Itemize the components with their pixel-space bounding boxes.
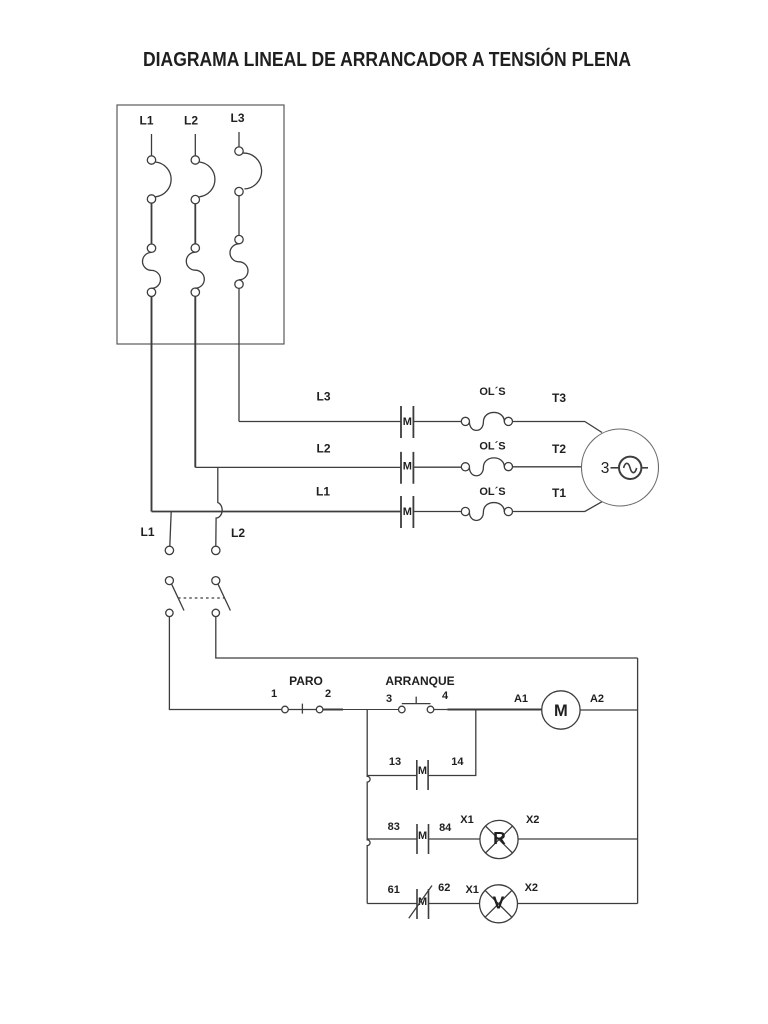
wire rung3 left: [367, 903, 417, 905]
svg-text:84: 84: [439, 822, 452, 834]
svg-text:X2: X2: [526, 814, 539, 826]
wire lamp R to right rail: [518, 838, 638, 840]
wire rung2 to lamp R: [429, 838, 480, 840]
svg-text:83: 83: [388, 821, 400, 833]
svg-text:OL´S: OL´S: [479, 486, 505, 498]
pushbutton ARRANQUE (NO): bridge and plunger: [402, 697, 431, 704]
svg-text:ARRANQUE: ARRANQUE: [385, 674, 454, 688]
fuse F2 (S-curve): [186, 252, 204, 288]
wire L3 pole down to L3 row: [238, 288, 240, 421]
svg-text:61: 61: [388, 884, 400, 896]
terminal circle L3: [235, 187, 243, 195]
contactor contact M (L2 pole): [401, 452, 413, 484]
svg-text:L2: L2: [231, 526, 245, 540]
auxiliary contact M 61-62 (NC): [417, 889, 429, 919]
control disconnect switch: linkage (dashed): [178, 597, 224, 599]
motor AC symbol lead left: [611, 467, 620, 469]
svg-text:L3: L3: [230, 111, 244, 125]
svg-text:14: 14: [451, 756, 464, 768]
wire M to OL (L3): [413, 421, 461, 423]
overload heater OL (L1): right terminal: [504, 507, 512, 515]
svg-text:X1: X1: [465, 884, 478, 896]
svg-text:X2: X2: [525, 882, 538, 894]
terminal circle L2 fuse top: [191, 244, 199, 252]
svg-text:T3: T3: [552, 391, 566, 405]
svg-text:A2: A2: [590, 693, 604, 705]
svg-text:OL´S: OL´S: [479, 386, 505, 398]
pushbutton ARRANQUE (NO): right terminal: [427, 706, 434, 713]
terminal circle L1: [147, 195, 155, 203]
wire L3 row to contactor: [239, 421, 401, 423]
wire rung2 left: [367, 838, 417, 840]
svg-text:3: 3: [386, 693, 392, 705]
terminal circle L3 top: [235, 147, 243, 155]
terminal circle L2 fuse bottom: [191, 288, 199, 296]
svg-text:M: M: [403, 506, 412, 518]
control disconnect switch: left blade: [172, 584, 184, 610]
svg-text:M: M: [418, 765, 427, 777]
svg-text:T2: T2: [552, 442, 566, 456]
svg-text:DIAGRAMA LINEAL DE ARRANCADOR: DIAGRAMA LINEAL DE ARRANCADOR A TENSIÓN …: [143, 47, 631, 71]
control disconnect switch: left pole bottom terminal: [166, 609, 173, 616]
wire L2 tap with hop over L1 row: [216, 467, 222, 546]
svg-text:L1: L1: [139, 114, 153, 128]
wire T2 to motor: [513, 466, 582, 468]
pilot lamp V (green): [480, 885, 518, 923]
motor M1 (3-phase): [582, 429, 659, 506]
disconnect switch blade L2: [199, 162, 215, 197]
wire seal-in branch rail: [367, 710, 370, 904]
wire right control rail: [637, 658, 639, 904]
control disconnect switch: left pole top terminal: [165, 577, 173, 585]
control disconnect switch: right pole bottom terminal: [212, 609, 219, 616]
fuse F3 (S-curve): [230, 244, 248, 280]
wire rung1 right, up to main rung: [428, 710, 476, 776]
pushbutton ARRANQUE (NO): left terminal: [399, 706, 406, 713]
pushbutton PARO (NC): left terminal: [282, 706, 289, 713]
wire L3 mid: [238, 196, 240, 236]
terminal circle L3 fuse bottom: [235, 280, 243, 288]
fuse F1 (S-curve): [143, 252, 161, 288]
wire L1 row to contactor: [152, 511, 402, 513]
svg-text:L2: L2: [184, 114, 198, 128]
NC slash: [409, 886, 432, 919]
wire rung1 left: [367, 775, 417, 777]
overload heater OL (L2): element: [469, 458, 504, 476]
wire L3 pole top: [238, 132, 240, 147]
svg-text:T1: T1: [552, 486, 566, 500]
svg-text:3: 3: [601, 460, 610, 477]
wire T1 to motor: [513, 502, 603, 512]
svg-text:M: M: [418, 830, 427, 842]
wire L1 pole down to L1 row: [151, 297, 153, 512]
wire right control feed: [216, 617, 638, 658]
control disconnect switch: right blade: [218, 584, 230, 610]
auxiliary contact M 13-14: [417, 760, 428, 790]
wire left control rail: [169, 617, 282, 710]
motor AC symbol lead right: [641, 467, 648, 469]
svg-text:1: 1: [271, 688, 277, 700]
svg-text:L3: L3: [316, 390, 330, 404]
overload heater OL (L2): left terminal: [461, 463, 469, 471]
overload heater OL (L2): right terminal: [504, 463, 512, 471]
pilot lamp R (red): [480, 820, 518, 858]
disconnect/fuse enclosure box: [117, 105, 284, 344]
svg-text:PARO: PARO: [289, 674, 323, 688]
motor AC symbol circle: [619, 457, 641, 479]
wire L2 mid: [194, 204, 196, 244]
wire PARO to ARRANQUE: [323, 709, 343, 711]
pushbutton PARO (NC): right terminal: [316, 706, 323, 713]
terminal circle L1 top: [147, 156, 155, 164]
wire M to OL (L1): [413, 511, 461, 513]
disconnect switch blade L1: [156, 162, 172, 197]
wire L2 pole down to L2 row: [194, 296, 196, 467]
svg-text:M: M: [554, 702, 568, 720]
overload heater OL (L3): left terminal: [461, 417, 469, 425]
overload heater OL (L3): right terminal: [504, 417, 512, 425]
wire lamp V to right rail: [518, 903, 638, 905]
wire L2 row to contactor: [195, 466, 401, 468]
overload heater OL (L1): left terminal: [461, 507, 469, 515]
svg-text:R: R: [493, 828, 506, 848]
svg-text:4: 4: [442, 690, 449, 702]
coil M (contactor coil): [542, 691, 580, 729]
wire L1 tap down: [170, 512, 171, 547]
wire rung3 to lamp V: [429, 903, 480, 905]
terminal circle L2 tap: [212, 546, 220, 554]
overload heater OL (L1): element: [469, 503, 504, 521]
overload heater OL (L3): element: [469, 412, 504, 430]
wire M to OL (L2): [413, 466, 461, 468]
svg-text:L1: L1: [316, 485, 330, 499]
terminal circle L2: [191, 195, 199, 203]
disconnect switch blade L3: [243, 153, 262, 189]
motor AC sine wave: [624, 463, 637, 472]
svg-text:V: V: [493, 892, 505, 912]
terminal circle L1 fuse bottom: [147, 288, 155, 296]
svg-text:M: M: [403, 416, 412, 428]
control disconnect switch: right pole top terminal: [212, 577, 220, 585]
svg-text:L1: L1: [140, 525, 154, 539]
wire L1 pole top: [151, 134, 153, 156]
svg-text:13: 13: [389, 756, 401, 768]
terminal circle L1 tap: [165, 546, 173, 554]
contactor contact M (L3 pole): [401, 406, 413, 438]
contactor contact M (L1 pole): [401, 496, 413, 528]
svg-text:A1: A1: [514, 693, 528, 705]
svg-text:X1: X1: [460, 814, 473, 826]
svg-text:M: M: [403, 460, 412, 472]
svg-text:62: 62: [438, 882, 450, 894]
terminal circle L2 top: [191, 156, 199, 164]
wire coil to right rail: [580, 709, 638, 711]
svg-text:2: 2: [325, 688, 331, 700]
wire L2 pole top: [194, 134, 196, 156]
auxiliary contact M 83-84: [417, 824, 429, 854]
terminal circle L3 fuse top: [235, 235, 243, 243]
wire T3 to motor: [513, 422, 603, 433]
pushbutton PARO (NC): contact bar: [288, 704, 316, 714]
wire ARRANQUE to coil: [434, 709, 448, 711]
terminal circle L1 fuse top: [147, 244, 155, 252]
svg-text:L2: L2: [316, 442, 330, 456]
svg-text:OL´S: OL´S: [479, 441, 505, 453]
wire L1 mid: [151, 203, 153, 244]
